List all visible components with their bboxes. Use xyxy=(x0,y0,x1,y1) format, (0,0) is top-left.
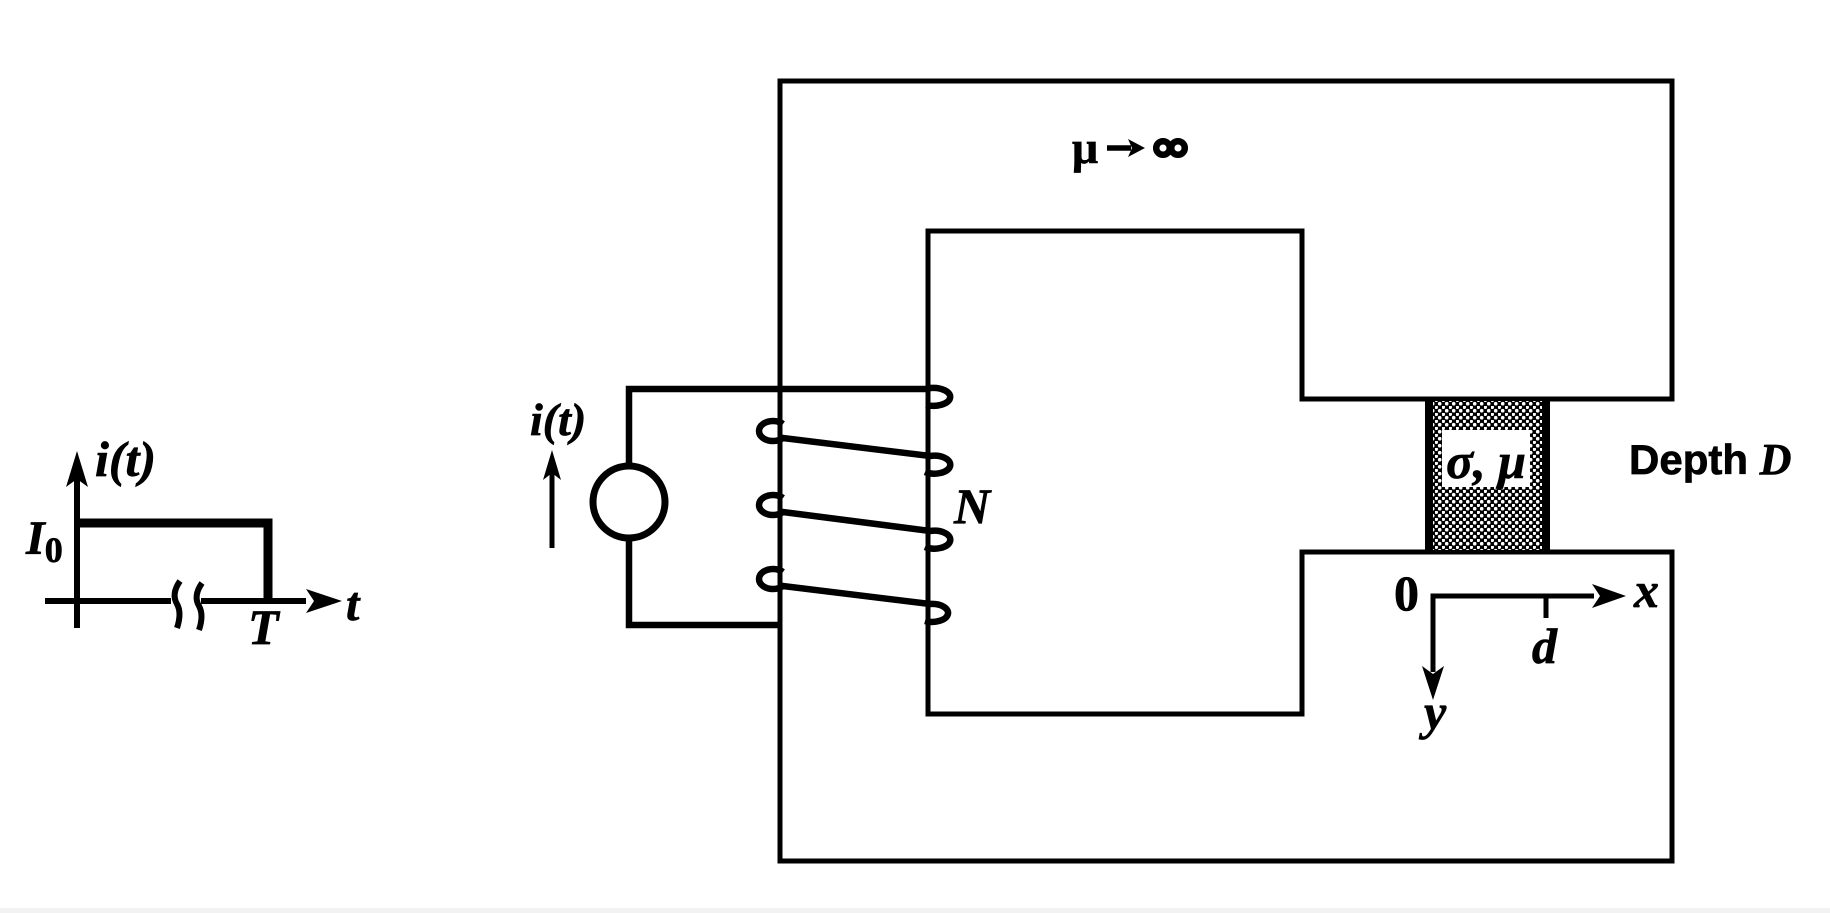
svg-text:N: N xyxy=(953,478,992,534)
svg-text:d: d xyxy=(1532,618,1558,674)
svg-text:0: 0 xyxy=(1394,565,1419,621)
svg-text:σ, μ: σ, μ xyxy=(1446,433,1526,489)
svg-text:i(t): i(t) xyxy=(95,431,156,487)
svg-text:y: y xyxy=(1419,684,1447,740)
svg-text:I0: I0 xyxy=(25,512,63,570)
svg-text:x: x xyxy=(1633,562,1659,618)
svg-text:Depth D: Depth D xyxy=(1629,435,1791,484)
svg-text:t: t xyxy=(346,578,361,631)
svg-text:μ: μ xyxy=(1072,122,1098,173)
svg-text:i(t): i(t) xyxy=(530,394,586,445)
svg-text:T: T xyxy=(248,599,281,655)
